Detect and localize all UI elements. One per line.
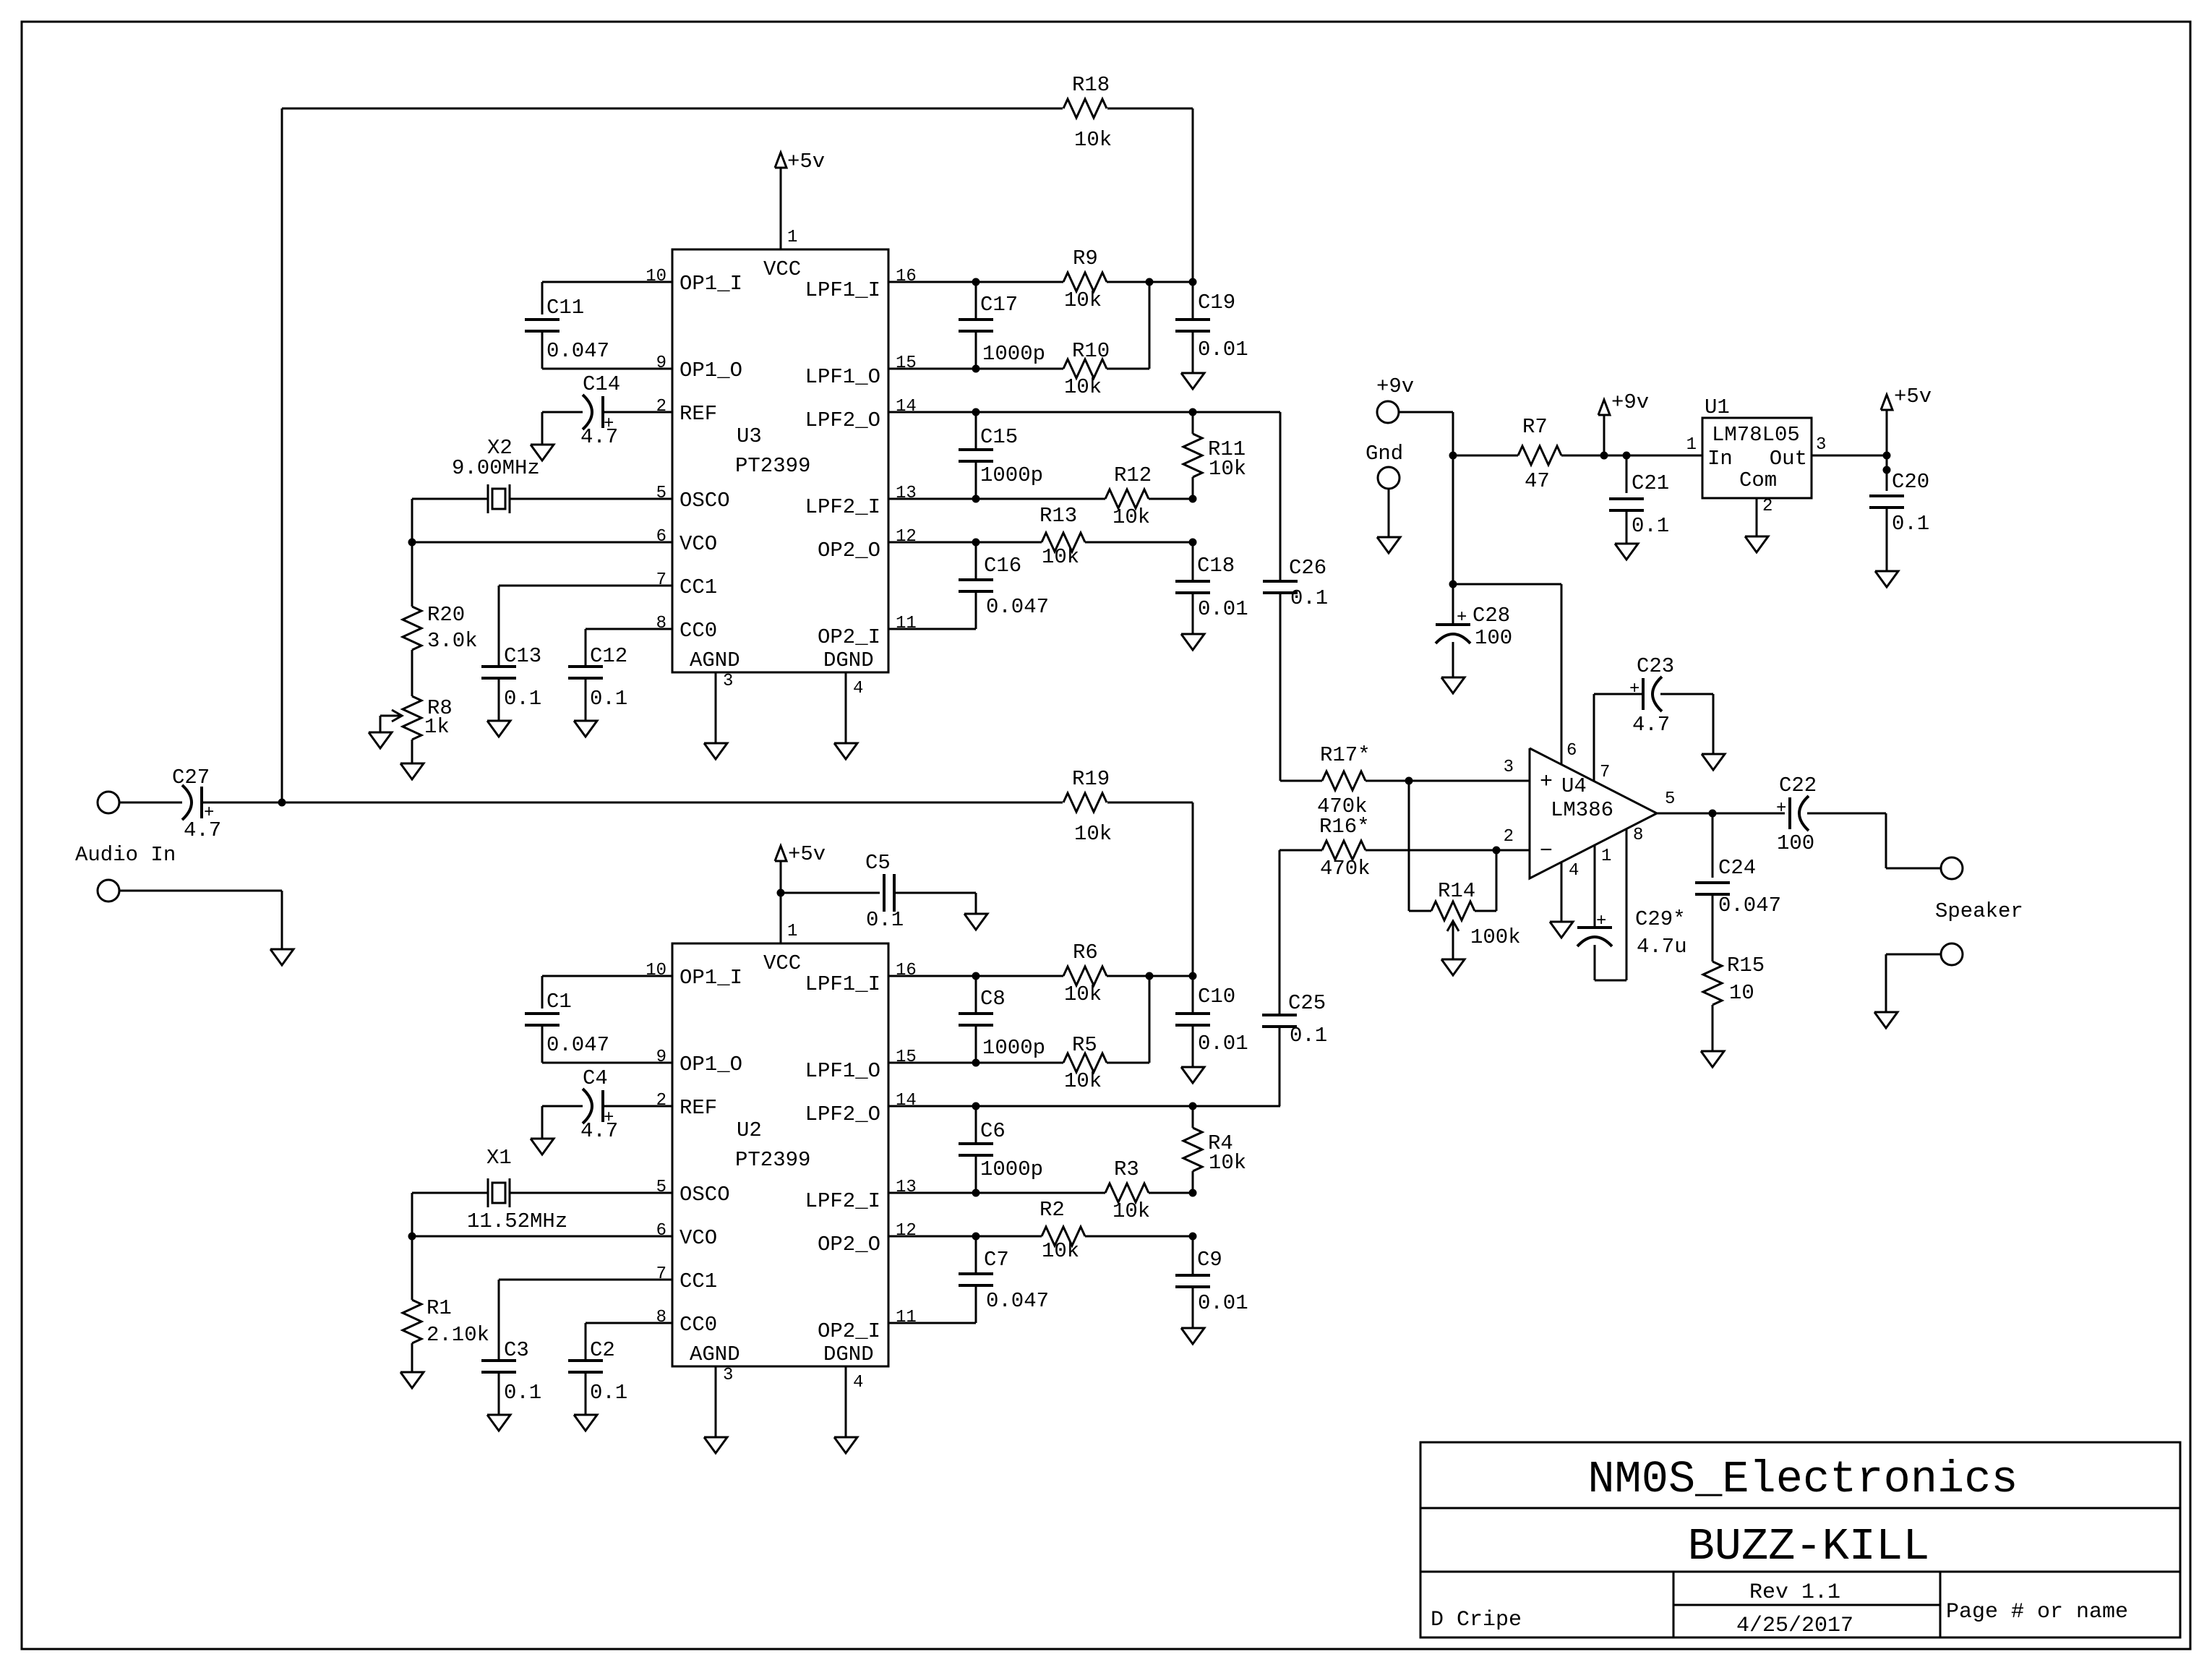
svg-text:8: 8	[656, 1308, 666, 1327]
svg-text:R17*: R17*	[1320, 743, 1371, 767]
svg-text:C9: C9	[1197, 1248, 1222, 1272]
svg-text:3: 3	[723, 672, 733, 691]
svg-text:0.1: 0.1	[1632, 514, 1669, 538]
svg-text:+: +	[1629, 680, 1639, 699]
svg-text:Audio In: Audio In	[75, 843, 176, 867]
svg-text:LPF2_I: LPF2_I	[805, 495, 880, 519]
svg-text:LPF1_O: LPF1_O	[805, 1059, 880, 1083]
svg-text:LM386: LM386	[1551, 798, 1613, 822]
svg-text:2: 2	[1762, 497, 1772, 516]
svg-text:OP2_I: OP2_I	[818, 625, 880, 649]
svg-text:C11: C11	[546, 296, 584, 320]
svg-text:0.1: 0.1	[1290, 1024, 1327, 1048]
svg-text:10k: 10k	[1064, 1069, 1102, 1093]
svg-text:C16: C16	[984, 554, 1021, 578]
svg-text:1000p: 1000p	[982, 342, 1045, 366]
svg-text:Gnd: Gnd	[1366, 442, 1403, 466]
svg-text:AGND: AGND	[690, 1343, 740, 1366]
svg-text:LM78L05: LM78L05	[1712, 423, 1800, 447]
svg-text:10k: 10k	[1064, 288, 1102, 312]
svg-text:LPF2_O: LPF2_O	[805, 408, 880, 432]
svg-text:C20: C20	[1892, 470, 1929, 494]
svg-text:−: −	[1540, 839, 1553, 864]
svg-text:C15: C15	[980, 425, 1018, 449]
svg-text:PT2399: PT2399	[735, 454, 810, 478]
svg-text:+: +	[1596, 912, 1606, 931]
svg-text:D Cripe: D Cripe	[1431, 1608, 1522, 1632]
svg-text:C10: C10	[1198, 985, 1235, 1009]
svg-text:OP1_O: OP1_O	[680, 1053, 742, 1076]
svg-text:5: 5	[656, 484, 666, 503]
svg-text:9.00MHz: 9.00MHz	[452, 456, 540, 480]
svg-text:1: 1	[787, 922, 797, 941]
svg-text:0.01: 0.01	[1198, 1291, 1248, 1315]
svg-text:4.7: 4.7	[580, 425, 618, 449]
svg-text:1: 1	[787, 228, 797, 247]
svg-text:C25: C25	[1288, 991, 1326, 1015]
svg-text:+: +	[1457, 608, 1467, 628]
svg-text:OP1_I: OP1_I	[680, 966, 742, 990]
svg-text:0.01: 0.01	[1198, 338, 1248, 361]
svg-text:+9v: +9v	[1611, 390, 1649, 414]
svg-text:Com: Com	[1739, 468, 1777, 492]
svg-text:R15: R15	[1727, 954, 1765, 977]
svg-text:AGND: AGND	[690, 648, 740, 672]
svg-text:OP2_I: OP2_I	[818, 1319, 880, 1343]
svg-text:R7: R7	[1522, 415, 1548, 439]
svg-text:C17: C17	[980, 293, 1018, 317]
svg-text:0.047: 0.047	[986, 1289, 1049, 1313]
svg-text:10: 10	[646, 961, 666, 980]
svg-text:C12: C12	[590, 644, 627, 668]
svg-text:10: 10	[646, 267, 666, 286]
svg-text:In: In	[1707, 447, 1733, 471]
svg-text:R10: R10	[1072, 339, 1110, 363]
svg-text:10k: 10k	[1042, 545, 1079, 569]
svg-text:0.1: 0.1	[504, 687, 541, 711]
svg-text:R20: R20	[427, 603, 465, 627]
svg-text:CC1: CC1	[680, 1269, 717, 1293]
svg-text:47: 47	[1525, 469, 1550, 493]
svg-text:C24: C24	[1718, 856, 1756, 880]
svg-text:2: 2	[656, 397, 666, 416]
svg-text:C14: C14	[583, 372, 620, 396]
svg-text:1k: 1k	[424, 715, 450, 739]
svg-text:4.7: 4.7	[184, 818, 221, 842]
svg-text:4.7: 4.7	[1632, 713, 1670, 737]
svg-text:R2: R2	[1039, 1198, 1065, 1222]
svg-text:14: 14	[896, 397, 917, 416]
svg-text:NM0S_Electronics: NM0S_Electronics	[1587, 1454, 2018, 1505]
svg-text:10k: 10k	[1113, 1199, 1150, 1223]
svg-text:VCO: VCO	[680, 1226, 717, 1250]
svg-text:3: 3	[723, 1366, 733, 1385]
svg-text:OSCO: OSCO	[680, 1183, 730, 1207]
svg-text:8: 8	[656, 614, 666, 633]
svg-text:C28: C28	[1472, 604, 1510, 628]
svg-text:9: 9	[656, 1048, 666, 1067]
svg-text:C13: C13	[504, 644, 541, 668]
svg-text:0.1: 0.1	[590, 1381, 627, 1405]
svg-text:4.7u: 4.7u	[1637, 935, 1687, 959]
svg-text:PT2399: PT2399	[735, 1148, 810, 1172]
svg-text:0.1: 0.1	[1290, 586, 1328, 610]
svg-text:Out: Out	[1770, 447, 1807, 471]
svg-text:10k: 10k	[1042, 1239, 1079, 1263]
svg-text:R9: R9	[1073, 247, 1098, 270]
svg-text:14: 14	[896, 1091, 917, 1110]
svg-text:5: 5	[656, 1178, 666, 1197]
svg-text:R13: R13	[1039, 504, 1077, 528]
svg-text:16: 16	[896, 267, 917, 286]
svg-text:Rev 1.1: Rev 1.1	[1749, 1580, 1840, 1605]
svg-text:R16*: R16*	[1319, 815, 1370, 839]
svg-text:10k: 10k	[1064, 375, 1102, 399]
svg-text:6: 6	[656, 527, 666, 547]
svg-text:11.52MHz: 11.52MHz	[467, 1209, 567, 1233]
svg-text:C18: C18	[1197, 554, 1235, 578]
svg-text:BUZZ-KILL: BUZZ-KILL	[1688, 1521, 1930, 1572]
svg-text:0.01: 0.01	[1198, 1032, 1248, 1055]
svg-text:1000p: 1000p	[980, 463, 1043, 487]
svg-text:DGND: DGND	[823, 648, 874, 672]
svg-text:100k: 100k	[1470, 925, 1521, 949]
svg-text:13: 13	[896, 484, 917, 503]
svg-text:2.10k: 2.10k	[426, 1323, 489, 1347]
svg-text:R18: R18	[1072, 73, 1110, 97]
svg-text:3: 3	[1504, 758, 1514, 777]
svg-text:LPF2_O: LPF2_O	[805, 1102, 880, 1126]
svg-text:C22: C22	[1779, 774, 1817, 797]
svg-text:OP1_O: OP1_O	[680, 359, 742, 382]
svg-text:4: 4	[853, 679, 863, 698]
svg-text:C2: C2	[590, 1338, 615, 1362]
svg-text:R19: R19	[1072, 767, 1110, 791]
svg-text:REF: REF	[680, 1096, 717, 1120]
svg-text:R14: R14	[1438, 879, 1475, 903]
svg-text:C3: C3	[504, 1338, 529, 1362]
svg-text:CC1: CC1	[680, 575, 717, 599]
svg-text:0.01: 0.01	[1198, 597, 1248, 621]
svg-text:LPF1_O: LPF1_O	[805, 365, 880, 389]
svg-text:C5: C5	[865, 851, 891, 875]
svg-text:4/25/2017: 4/25/2017	[1736, 1614, 1853, 1638]
svg-text:X1: X1	[486, 1146, 512, 1170]
svg-text:R12: R12	[1114, 463, 1152, 487]
svg-text:3.0k: 3.0k	[427, 629, 478, 653]
svg-text:C7: C7	[984, 1248, 1009, 1272]
svg-text:10: 10	[1729, 981, 1754, 1005]
svg-text:12: 12	[896, 1221, 917, 1241]
svg-text:1: 1	[1601, 847, 1611, 866]
svg-text:+5v: +5v	[788, 842, 826, 866]
svg-text:0.1: 0.1	[590, 687, 627, 711]
svg-text:0.047: 0.047	[546, 339, 609, 363]
svg-text:100: 100	[1475, 626, 1512, 650]
svg-text:2: 2	[656, 1091, 666, 1110]
svg-text:0.047: 0.047	[546, 1033, 609, 1057]
svg-text:OP2_O: OP2_O	[818, 539, 880, 562]
svg-text:4: 4	[1569, 861, 1579, 881]
svg-text:U2: U2	[737, 1118, 762, 1142]
svg-text:+5v: +5v	[1894, 385, 1932, 408]
svg-text:OP2_O: OP2_O	[818, 1233, 880, 1256]
svg-text:10k: 10k	[1209, 1151, 1246, 1175]
svg-text:U3: U3	[737, 424, 762, 448]
svg-text:0.1: 0.1	[866, 908, 904, 932]
svg-text:OSCO: OSCO	[680, 489, 730, 513]
svg-text:10k: 10k	[1064, 982, 1102, 1006]
svg-text:8: 8	[1633, 826, 1643, 845]
svg-text:CC0: CC0	[680, 1313, 717, 1337]
svg-text:7: 7	[656, 1264, 666, 1284]
svg-text:0.1: 0.1	[1892, 512, 1929, 536]
svg-text:U1: U1	[1705, 395, 1730, 419]
svg-text:1000p: 1000p	[982, 1036, 1045, 1060]
svg-text:10k: 10k	[1113, 505, 1150, 529]
svg-text:12: 12	[896, 527, 917, 547]
svg-text:C26: C26	[1289, 556, 1326, 580]
svg-text:0.047: 0.047	[1718, 894, 1781, 917]
svg-text:R5: R5	[1072, 1033, 1097, 1057]
svg-text:U4: U4	[1561, 774, 1587, 798]
svg-text:Speaker: Speaker	[1935, 899, 2023, 923]
svg-text:+: +	[1776, 799, 1786, 818]
svg-text:15: 15	[896, 354, 917, 373]
svg-text:C19: C19	[1198, 291, 1235, 314]
svg-text:10k: 10k	[1209, 457, 1246, 481]
svg-text:4.7: 4.7	[580, 1119, 618, 1143]
svg-text:1: 1	[1686, 435, 1697, 455]
svg-text:2: 2	[1504, 827, 1514, 847]
svg-text:LPF2_I: LPF2_I	[805, 1189, 880, 1213]
svg-text:13: 13	[896, 1178, 917, 1197]
svg-text:5: 5	[1665, 789, 1675, 809]
svg-text:R6: R6	[1073, 941, 1098, 964]
svg-text:VCC: VCC	[763, 257, 801, 281]
svg-text:R1: R1	[426, 1296, 452, 1320]
svg-text:C1: C1	[546, 990, 572, 1014]
svg-text:C8: C8	[980, 987, 1006, 1011]
svg-text:LPF1_I: LPF1_I	[805, 972, 880, 996]
svg-text:CC0: CC0	[680, 619, 717, 643]
svg-text:OP1_I: OP1_I	[680, 272, 742, 296]
svg-text:11: 11	[896, 1308, 917, 1327]
svg-text:15: 15	[896, 1048, 917, 1067]
svg-text:+: +	[1540, 770, 1553, 795]
svg-text:10k: 10k	[1074, 822, 1112, 846]
svg-text:+: +	[204, 803, 214, 823]
svg-text:Page # or name: Page # or name	[1946, 1600, 2128, 1624]
svg-text:6: 6	[1566, 741, 1577, 761]
svg-text:10k: 10k	[1074, 128, 1112, 152]
svg-text:VCC: VCC	[763, 951, 801, 975]
svg-text:C29*: C29*	[1635, 907, 1686, 931]
svg-text:DGND: DGND	[823, 1343, 874, 1366]
svg-text:9: 9	[656, 354, 666, 373]
svg-text:100: 100	[1777, 831, 1814, 855]
svg-text:C27: C27	[172, 766, 210, 789]
svg-text:6: 6	[656, 1221, 666, 1241]
svg-text:3: 3	[1816, 435, 1826, 455]
svg-text:11: 11	[896, 614, 917, 633]
svg-text:+9v: +9v	[1376, 374, 1414, 398]
svg-text:0.1: 0.1	[504, 1381, 541, 1405]
svg-text:C6: C6	[980, 1119, 1006, 1143]
svg-text:470k: 470k	[1320, 857, 1371, 881]
svg-text:4: 4	[853, 1373, 863, 1392]
svg-text:C4: C4	[583, 1066, 608, 1090]
svg-text:C21: C21	[1632, 471, 1669, 495]
svg-text:VCO: VCO	[680, 532, 717, 556]
svg-text:7: 7	[1600, 763, 1610, 782]
svg-text:+5v: +5v	[787, 150, 825, 174]
svg-text:0.047: 0.047	[986, 595, 1049, 619]
svg-text:7: 7	[656, 570, 666, 590]
svg-text:REF: REF	[680, 402, 717, 426]
svg-text:C23: C23	[1637, 654, 1674, 678]
svg-text:1000p: 1000p	[980, 1157, 1043, 1181]
svg-text:LPF1_I: LPF1_I	[805, 278, 880, 302]
svg-text:16: 16	[896, 961, 917, 980]
svg-text:R3: R3	[1114, 1157, 1139, 1181]
